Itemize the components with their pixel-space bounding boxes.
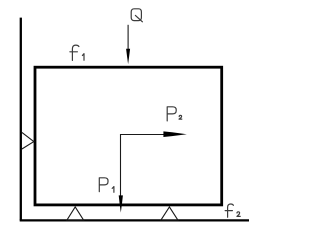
label P1 bbox=[99, 178, 114, 193]
force Q arrow shaft bbox=[127, 25, 129, 50]
force P1 arrowhead (down) bbox=[119, 195, 123, 212]
label f2 bbox=[225, 204, 240, 217]
force P2/P1 bent line (corner) bbox=[121, 135, 165, 197]
wall support line (left vertical) bbox=[20, 18, 22, 221]
label Q bbox=[131, 9, 142, 22]
force Q arrowhead bbox=[126, 49, 130, 64]
ground support line (bottom horizontal) bbox=[20, 219, 249, 221]
plate outline (thick rectangle) bbox=[35, 67, 222, 205]
bottom roller support triangle 2 bbox=[161, 207, 178, 220]
bottom roller support triangle 1 bbox=[67, 207, 84, 220]
label P2 bbox=[167, 107, 182, 121]
label f1 bbox=[70, 45, 84, 60]
force P2 arrowhead (right) bbox=[163, 131, 186, 137]
left roller support triangle bbox=[22, 132, 34, 149]
